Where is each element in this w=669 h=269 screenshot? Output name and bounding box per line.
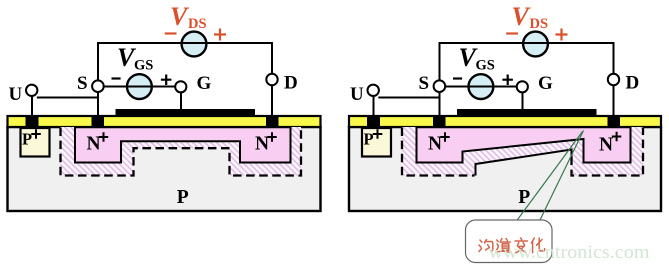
VDS minus sign (right) bbox=[506, 32, 518, 34]
P substrate body bbox=[8, 127, 321, 211]
svg-text:N: N bbox=[87, 134, 101, 155]
P substrate body (right) bbox=[349, 127, 661, 211]
depletion boundary dashed right part bbox=[572, 128, 644, 176]
P+ region (right) bbox=[362, 128, 391, 157]
N+ source/drain + channel (pink region) bbox=[75, 127, 291, 162]
source VDS (right) bbox=[523, 32, 548, 57]
oxide layer (yellow) bbox=[8, 116, 321, 127]
P+ region bbox=[21, 128, 50, 157]
svg-text:P: P bbox=[364, 130, 374, 149]
wire VDS loop bbox=[98, 43, 272, 81]
glyph dao bbox=[496, 239, 511, 253]
source VGS bbox=[127, 74, 152, 99]
terminal D bbox=[266, 74, 277, 85]
svg-text:N: N bbox=[255, 134, 269, 155]
svg-text:DS: DS bbox=[530, 16, 549, 32]
svg-text:G: G bbox=[197, 73, 212, 94]
VGS minus sign bbox=[112, 77, 121, 79]
glyph hua bbox=[531, 238, 544, 253]
wire G stem (right) bbox=[522, 92, 524, 110]
wire U-S link bbox=[37, 97, 98, 99]
svg-text:D: D bbox=[284, 73, 298, 94]
annotation line 1 bbox=[517, 132, 583, 222]
VGS minus sign (right) bbox=[453, 77, 462, 79]
wire S stem bbox=[97, 92, 99, 116]
svg-text:N: N bbox=[599, 135, 613, 156]
glyph gou bbox=[479, 240, 493, 252]
svg-text:S: S bbox=[77, 73, 88, 94]
depletion boundary solid sloped part bbox=[476, 150, 572, 176]
terminal G (right) bbox=[517, 81, 528, 92]
body contact (right) bbox=[367, 115, 380, 128]
svg-text:N: N bbox=[428, 134, 442, 155]
depletion boundary (dashed) bbox=[61, 128, 302, 176]
source VGS (right) bbox=[469, 74, 494, 99]
VGS plus sign (right) bbox=[502, 75, 513, 86]
source VDS bbox=[182, 32, 207, 57]
terminal S (right) bbox=[434, 80, 446, 92]
drain contact bbox=[266, 115, 279, 128]
gate electrode bbox=[116, 109, 256, 117]
N+ source/drain + tapered channel (pink region, right) bbox=[417, 127, 631, 162]
wire U-S link (right) bbox=[378, 97, 439, 99]
svg-text:DS: DS bbox=[188, 16, 207, 32]
wire VGS (right) bbox=[445, 86, 517, 88]
VGS plus sign bbox=[161, 75, 172, 86]
oxide layer (yellow, right) bbox=[349, 116, 661, 127]
svg-text:GS: GS bbox=[476, 58, 495, 74]
wire D stem bbox=[271, 85, 273, 116]
terminal S bbox=[92, 80, 104, 92]
terminal D (right) bbox=[608, 74, 619, 85]
VDS plus sign bbox=[214, 29, 226, 41]
callout text: glyphs of chinese label (hand-drawn) bbox=[479, 238, 545, 253]
wire G stem bbox=[180, 92, 182, 110]
svg-text:V: V bbox=[512, 2, 532, 31]
depletion region (hatched) bbox=[61, 127, 302, 176]
svg-text:V: V bbox=[170, 2, 190, 31]
terminal U (right) bbox=[368, 85, 379, 96]
source contact (right) bbox=[433, 115, 446, 128]
wire U stem bbox=[31, 96, 33, 116]
glyph bian bbox=[515, 238, 527, 253]
VDS plus sign (right) bbox=[556, 29, 568, 41]
svg-text:P: P bbox=[22, 130, 32, 149]
svg-text:GS: GS bbox=[134, 58, 153, 74]
wire VGS bbox=[104, 86, 176, 88]
depletion boundary dashed left part bbox=[402, 128, 475, 176]
callout box bbox=[466, 220, 553, 263]
svg-text:www.cntronics.com: www.cntronics.com bbox=[489, 242, 650, 263]
drain contact (right) bbox=[608, 115, 621, 128]
svg-text:G: G bbox=[538, 73, 553, 94]
body contact bbox=[26, 115, 39, 128]
source contact bbox=[92, 115, 105, 128]
svg-text:D: D bbox=[626, 73, 640, 94]
gate electrode (right) bbox=[457, 109, 597, 117]
VDS minus sign bbox=[165, 32, 177, 34]
wire S stem (right) bbox=[439, 92, 441, 116]
wire U stem (right) bbox=[373, 96, 375, 116]
svg-text:U: U bbox=[9, 84, 23, 105]
terminal G bbox=[175, 81, 186, 92]
wire D stem (right) bbox=[613, 85, 615, 116]
terminal U bbox=[26, 85, 37, 96]
depletion region (hatched, right) bbox=[402, 127, 643, 176]
wire VDS loop (right) bbox=[440, 43, 614, 81]
svg-text:S: S bbox=[419, 73, 430, 94]
svg-text:P: P bbox=[177, 187, 189, 208]
annotation line 2 bbox=[540, 131, 584, 222]
svg-text:U: U bbox=[350, 84, 364, 105]
